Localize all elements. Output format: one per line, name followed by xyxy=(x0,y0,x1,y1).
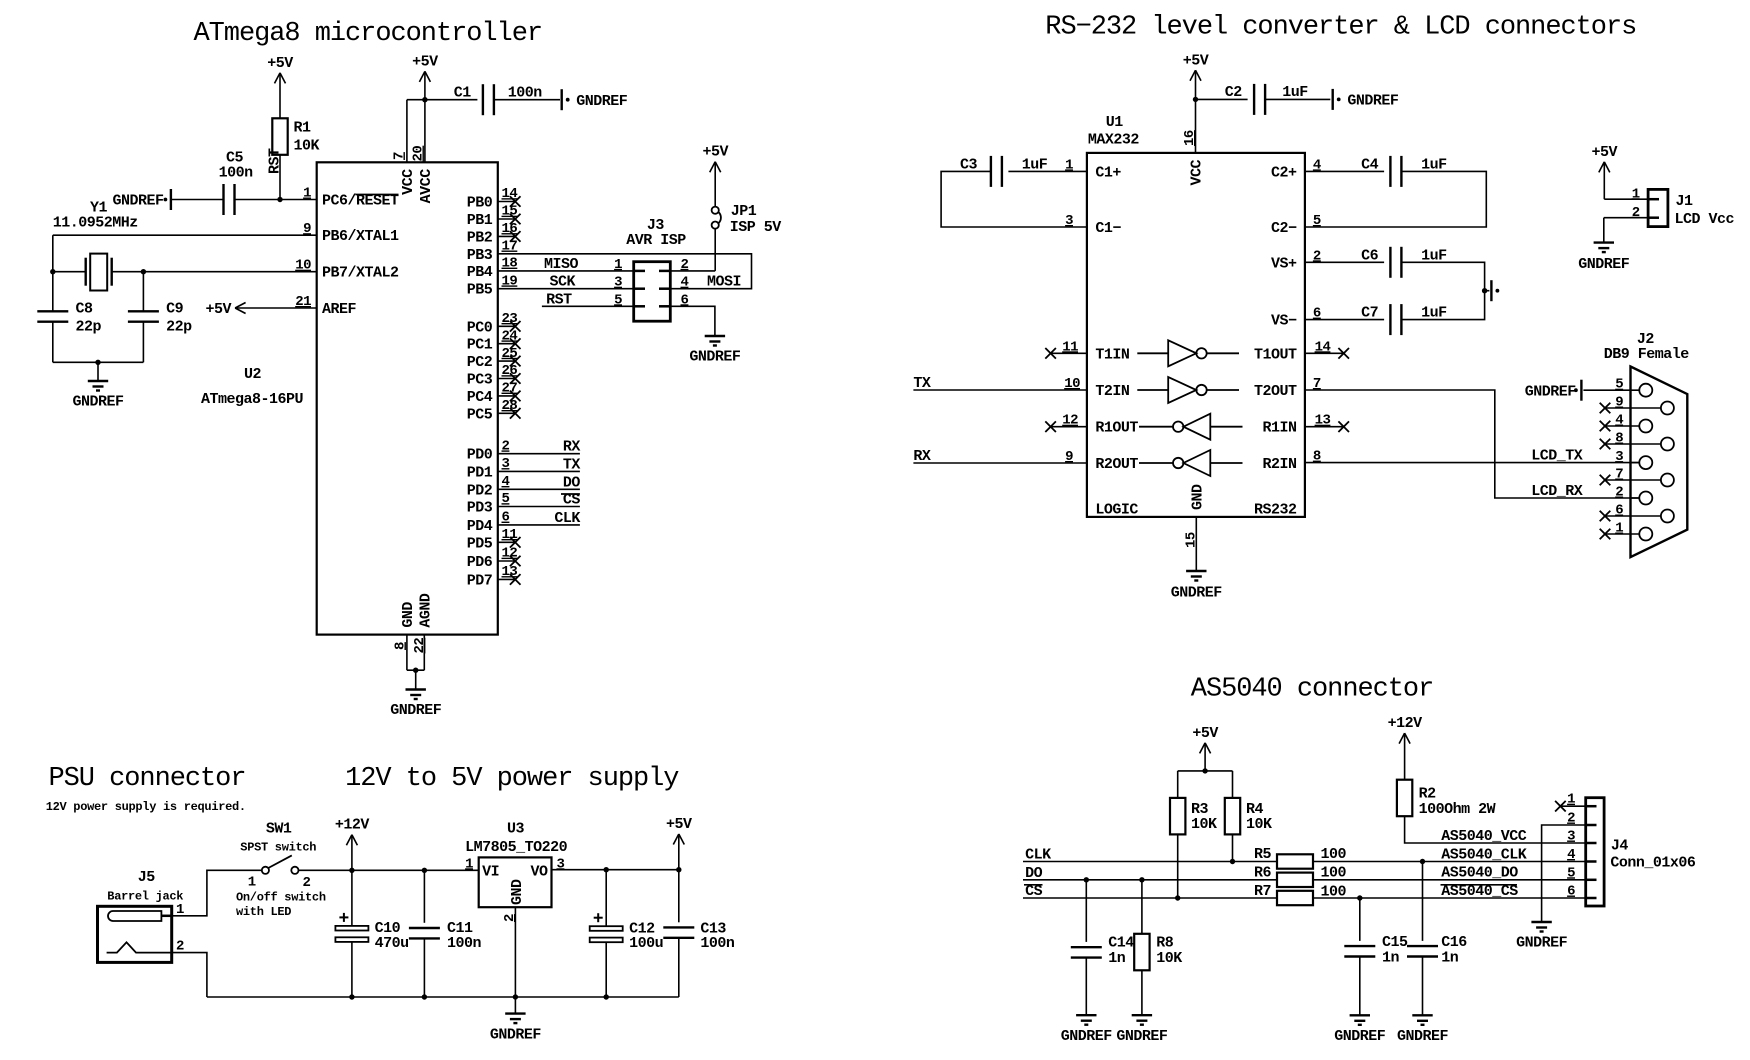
wire R8 bottom lead xyxy=(1141,970,1143,1015)
junction R3/R4 top xyxy=(1202,768,1207,773)
wire bottom rail xyxy=(207,996,679,998)
wire C12 top lead xyxy=(605,870,607,927)
power flag at C5 xyxy=(164,189,171,210)
svg-text:+12V: +12V xyxy=(1388,715,1423,732)
label CS at U2 xyxy=(563,492,581,509)
svg-text:J1: J1 xyxy=(1676,193,1694,210)
svg-text:PD5: PD5 xyxy=(467,535,493,552)
wire pin12 stub xyxy=(1051,426,1087,428)
ground label C14 xyxy=(1061,1028,1113,1045)
wire J3 pin6 gnd xyxy=(670,306,715,336)
svg-text:100Ohm 2W: 100Ohm 2W xyxy=(1419,801,1496,818)
no-connect PD6 xyxy=(510,556,521,567)
connector J2 pin 1 circle xyxy=(1639,528,1652,541)
pin number J4 pin6 xyxy=(1567,884,1575,900)
svg-text:11.0952MHz: 11.0952MHz xyxy=(53,214,138,231)
pin name U2 AREF xyxy=(322,301,357,318)
wire C16 top lead xyxy=(1422,862,1424,941)
svg-text:ISP 5V: ISP 5V xyxy=(730,219,782,236)
label R4 value xyxy=(1246,816,1272,833)
wire AS5040_VCC net xyxy=(1405,816,1586,843)
label LCD_RX xyxy=(1531,483,1583,500)
svg-text:12: 12 xyxy=(502,546,518,562)
wire crystal left lead xyxy=(53,271,86,273)
connector J1 pin tab 1 xyxy=(1648,198,1659,201)
pin number U2 pin11 xyxy=(502,527,518,543)
label C8 refdes xyxy=(76,301,94,318)
capacitor C3 xyxy=(991,156,1002,187)
wire PB1 stub xyxy=(498,218,515,220)
wire J1 pin2 gnd drop xyxy=(1603,218,1605,243)
power flag at C6/C7 xyxy=(1491,280,1499,301)
svg-text:SW1: SW1 xyxy=(266,821,292,838)
connector J2 refdes xyxy=(1637,331,1655,348)
label R5 refdes xyxy=(1254,846,1272,863)
label C3 value xyxy=(1022,157,1048,174)
connector J1 value LCD Vcc xyxy=(1675,211,1735,228)
label R8 refdes xyxy=(1156,935,1174,952)
pin number J3 pin1 xyxy=(614,257,622,273)
label C9 refdes xyxy=(166,301,184,318)
label R5 value 100 xyxy=(1321,846,1347,863)
pin number SW1 pin2 xyxy=(303,875,311,891)
junction +12V node xyxy=(349,868,354,873)
wire gnd link xyxy=(407,669,424,671)
pin number U2 pin24 xyxy=(502,328,518,344)
pin number U1 pin3 xyxy=(1065,213,1073,229)
svg-text:RX: RX xyxy=(913,448,931,465)
svg-text:19: 19 xyxy=(502,273,518,289)
junction R4/CLK xyxy=(1230,859,1235,864)
no-connect J2 pin4 xyxy=(1600,421,1611,432)
pin name U2 PD3 xyxy=(467,500,493,517)
pin name U1 RS232 xyxy=(1254,501,1297,518)
wire main 12V rail xyxy=(352,869,479,871)
label AS5040_CLK xyxy=(1441,846,1527,863)
capacitor C4 xyxy=(1390,156,1401,187)
svg-text:GNDREF: GNDREF xyxy=(112,193,164,210)
pin number U2 pin12 xyxy=(502,546,518,562)
power flag label at J2 pin5 xyxy=(1525,383,1577,400)
svg-text:C6: C6 xyxy=(1361,247,1379,264)
label MISO xyxy=(544,256,579,273)
pin name U1 C2- xyxy=(1271,220,1297,237)
junction C12 bottom xyxy=(604,994,609,999)
wire junction to flag xyxy=(1485,290,1490,292)
wire RST to J3 xyxy=(542,305,634,307)
pin number U1 pin11 xyxy=(1062,339,1078,355)
buffer T1 driver xyxy=(1137,340,1239,366)
wire U2 gnd stub xyxy=(415,670,417,689)
svg-text:470u: 470u xyxy=(375,935,409,952)
label R8 value xyxy=(1156,950,1182,967)
svg-text:R6: R6 xyxy=(1254,864,1272,881)
svg-text:6: 6 xyxy=(1567,884,1575,900)
no-connect PC5 xyxy=(510,408,521,419)
capacitor C11 xyxy=(409,928,440,938)
label CS xyxy=(1025,883,1043,900)
connector J5 value Barrel jack xyxy=(107,889,183,903)
label C16 value xyxy=(1441,950,1459,967)
jumper JP1 xyxy=(712,207,721,229)
label AS5040_DO xyxy=(1441,865,1518,882)
net label RST vertical xyxy=(267,148,284,174)
svg-text:22p: 22p xyxy=(166,318,192,335)
svg-text:2: 2 xyxy=(1632,205,1640,221)
svg-text:13: 13 xyxy=(502,564,518,580)
ground label U1 xyxy=(1171,585,1223,602)
wire C14 top lead xyxy=(1085,880,1087,942)
svg-text:1: 1 xyxy=(303,186,311,202)
power +5V at R1 xyxy=(267,55,293,118)
svg-text:GNDREF: GNDREF xyxy=(1525,383,1577,400)
label RST at J3 xyxy=(546,291,572,308)
resistor R4 xyxy=(1225,798,1240,835)
capacitor C15 xyxy=(1344,946,1375,956)
svg-text:PB0: PB0 xyxy=(467,195,493,212)
svg-text:C2+: C2+ xyxy=(1271,164,1297,181)
wire vcc link xyxy=(407,99,425,101)
svg-text:LM7805_TO220: LM7805_TO220 xyxy=(465,839,568,856)
pin name U2 PD6 xyxy=(467,554,493,571)
svg-text:On/off switch: On/off switch xyxy=(236,890,326,904)
svg-text:VS+: VS+ xyxy=(1271,255,1297,272)
svg-text:PC6/: PC6/ xyxy=(322,193,357,210)
label R6 refdes xyxy=(1254,864,1272,881)
power +5V at U1 VCC xyxy=(1183,52,1209,99)
wire C12 bottom lead xyxy=(605,942,607,997)
wire J2 pin3 link xyxy=(1631,462,1640,464)
wire U3 gnd stub xyxy=(514,997,516,1014)
wire J1 pin1 wire xyxy=(1604,198,1648,200)
wire J2 pin2 link xyxy=(1631,497,1640,499)
svg-text:GNDREF: GNDREF xyxy=(1061,1028,1113,1045)
capacitor C5 xyxy=(224,184,235,215)
label C13 value xyxy=(700,935,735,952)
svg-text:C1: C1 xyxy=(454,84,472,101)
connector J5 sleeve pin xyxy=(107,942,172,952)
wire PB4 MISO xyxy=(498,270,634,272)
pin number U2 pin10 xyxy=(295,258,311,274)
label C6 value xyxy=(1421,247,1447,264)
pin name U2 PB7/XTAL2 xyxy=(322,265,399,282)
label C10 value xyxy=(375,935,409,952)
wire PC2 stub xyxy=(498,360,515,362)
junction R8/DO xyxy=(1139,877,1144,882)
connector J4 body xyxy=(1586,798,1604,906)
capacitor C10 xyxy=(335,913,368,942)
note On/off switch xyxy=(236,890,326,904)
svg-text:PD2: PD2 xyxy=(467,482,493,499)
ground label crystal xyxy=(72,394,124,411)
svg-text:ATmega8-16PU: ATmega8-16PU xyxy=(201,391,304,408)
svg-text:2: 2 xyxy=(303,875,311,891)
wire C4 loop xyxy=(1305,171,1486,227)
svg-text:PD0: PD0 xyxy=(467,447,493,464)
pin name U1 C1- xyxy=(1095,220,1121,237)
wire AS5040_CS net xyxy=(1313,897,1586,899)
power flag label at C5 xyxy=(112,193,164,210)
pin name U1 VS+ xyxy=(1271,255,1297,272)
pin number U2 pin8 xyxy=(393,642,409,650)
svg-text:4: 4 xyxy=(502,474,510,490)
svg-text:SPST switch: SPST switch xyxy=(240,841,316,855)
svg-text:100n: 100n xyxy=(508,84,543,101)
connector J3 pin tab left xyxy=(634,305,645,308)
connector J1 pin tab 2 xyxy=(1648,216,1659,219)
connector J1 refdes xyxy=(1676,193,1694,210)
pin name U1 T2IN xyxy=(1095,383,1130,400)
label C7 refdes xyxy=(1361,305,1378,322)
svg-text:GNDREF: GNDREF xyxy=(1334,1028,1386,1045)
wire AS5040_CLK net xyxy=(1313,861,1586,863)
no-connect PD5 xyxy=(510,537,521,548)
svg-text:1uF: 1uF xyxy=(1022,157,1048,174)
junction +5V node xyxy=(676,867,681,872)
wire pin4 to C4 xyxy=(1305,170,1384,172)
overline CS net xyxy=(1024,884,1043,886)
wire PC4 stub xyxy=(498,395,515,397)
svg-text:AS5040_DO: AS5040_DO xyxy=(1441,865,1518,882)
pin name U2 PB1 xyxy=(467,212,493,229)
ground J4 xyxy=(1531,922,1551,932)
junction C11 bottom xyxy=(422,994,427,999)
label R2 refdes xyxy=(1419,786,1437,803)
wire pin22 drop xyxy=(423,635,425,671)
power +5V at JP1 xyxy=(702,144,728,207)
svg-text:RX: RX xyxy=(563,439,581,456)
power flag at J2 pin5 xyxy=(1574,380,1581,401)
svg-text:22: 22 xyxy=(412,638,428,654)
svg-text:LCD_TX: LCD_TX xyxy=(1531,448,1583,465)
pin number U3 pin3 xyxy=(557,856,565,872)
svg-text:VS−: VS− xyxy=(1271,313,1297,330)
pin number J2 pin6 xyxy=(1615,503,1623,519)
pin number J1 pin2 xyxy=(1632,205,1640,221)
wire R4 top lead xyxy=(1232,771,1234,798)
svg-text:+5V: +5V xyxy=(666,816,692,833)
pin number U2 pin23 xyxy=(502,311,518,327)
ic U1 value MAX232 xyxy=(1088,132,1140,149)
svg-text:U3: U3 xyxy=(507,821,525,838)
wire crystal left drop xyxy=(52,235,54,311)
ground U2 xyxy=(406,690,426,700)
pin number U2 pin25 xyxy=(502,346,518,362)
ground label J4 xyxy=(1516,935,1568,952)
junction crystal gnd xyxy=(95,360,100,365)
wire J4 pin1 stub xyxy=(1560,805,1585,807)
svg-text:PC3: PC3 xyxy=(467,372,493,389)
pin name U2 PC3 xyxy=(467,372,493,389)
connector J2 pin 7 circle xyxy=(1661,474,1674,487)
ground label J1 xyxy=(1578,256,1630,273)
connector J4 pin tab 2 xyxy=(1586,824,1597,827)
pin name U1 T1OUT xyxy=(1254,346,1297,363)
resistor R8 xyxy=(1134,934,1149,971)
pin name U3 VO xyxy=(530,863,548,880)
capacitor C14 xyxy=(1071,947,1102,957)
svg-text:2: 2 xyxy=(1567,811,1575,827)
label R3 value xyxy=(1191,816,1217,833)
pin name U1 T2OUT xyxy=(1254,383,1297,400)
svg-text:21: 21 xyxy=(295,294,311,310)
svg-text:PC5: PC5 xyxy=(467,406,493,423)
no-connect J2 pin6 xyxy=(1600,511,1611,522)
pin name U1 C2+ xyxy=(1271,164,1297,181)
wire C8 down xyxy=(52,322,54,363)
svg-text:MAX232: MAX232 xyxy=(1088,132,1140,149)
svg-text:with LED: with LED xyxy=(236,905,291,919)
connector J3 pin tab right xyxy=(659,287,670,290)
no-connect PC0 xyxy=(510,321,521,332)
no-connect J2 pin8 xyxy=(1600,439,1611,450)
svg-text:RS232: RS232 xyxy=(1254,501,1297,518)
pin number J4 pin5 xyxy=(1567,865,1575,881)
svg-text:18: 18 xyxy=(502,256,518,272)
label C11 value xyxy=(447,935,482,952)
pin number U1 pin4 xyxy=(1313,157,1321,173)
wire J2 pin9 stub xyxy=(1605,407,1661,409)
pin name U1 GND xyxy=(1189,484,1206,510)
svg-text:6: 6 xyxy=(502,510,510,526)
svg-text:PB5: PB5 xyxy=(467,282,493,299)
pin name U2 RESET part xyxy=(356,193,399,210)
title PSU connector xyxy=(49,764,246,794)
no-connect PB0 xyxy=(510,196,521,207)
pin number U1 pin13 xyxy=(1315,413,1331,429)
svg-text:20: 20 xyxy=(411,146,427,162)
regulator U3 value LM7805_TO220 xyxy=(465,839,568,856)
buffer R1 receiver xyxy=(1139,414,1243,440)
pin number J2 pin2 xyxy=(1615,485,1623,501)
ground label J3 xyxy=(689,349,741,366)
ground J3 xyxy=(705,336,725,346)
pin name U2 PC1 xyxy=(467,337,493,354)
no-connect J2 pin9 xyxy=(1600,403,1611,414)
wire U1 gnd stub xyxy=(1195,517,1197,571)
no-connect J2 pin1 xyxy=(1600,529,1611,540)
svg-text:AS5040 connector: AS5040 connector xyxy=(1191,675,1433,705)
svg-text:J5: J5 xyxy=(138,869,156,886)
connector J3 pin tab right xyxy=(659,270,670,273)
svg-text:DB9 Female: DB9 Female xyxy=(1604,346,1690,363)
wire PD1 TX xyxy=(498,470,580,472)
jumper JP1 refdes xyxy=(731,203,757,220)
power +12V at PSU xyxy=(335,817,370,871)
pin number J5 pin1 xyxy=(176,902,184,918)
power +5V at J1 xyxy=(1592,144,1618,199)
svg-text:PC2: PC2 xyxy=(467,354,493,371)
wire PB3 MOSI net xyxy=(498,254,752,289)
svg-text:PSU connector: PSU connector xyxy=(49,764,246,794)
pin number U2 pin1 xyxy=(303,186,311,202)
pin name U2 PB4 xyxy=(467,264,493,281)
svg-text:C16: C16 xyxy=(1441,934,1467,951)
pin number J2 pin3 xyxy=(1615,449,1623,465)
pin name U1 R1IN xyxy=(1262,420,1297,437)
capacitor C7 xyxy=(1390,304,1401,335)
pin number U2 pin22 xyxy=(412,638,428,654)
wire C6 to junction xyxy=(1401,262,1484,290)
wire R3 top lead xyxy=(1177,771,1179,798)
label TX xyxy=(913,375,931,392)
svg-text:C9: C9 xyxy=(166,301,184,318)
label C14 value xyxy=(1108,950,1126,967)
svg-text:1uF: 1uF xyxy=(1282,84,1308,101)
svg-text:RS−232 level converter & LCD c: RS−232 level converter & LCD connectors xyxy=(1045,13,1636,43)
svg-text:25: 25 xyxy=(502,346,518,362)
svg-text:AS5040_CLK: AS5040_CLK xyxy=(1441,846,1527,863)
svg-text:12V to 5V power supply: 12V to 5V power supply xyxy=(345,764,679,794)
wire PD4 CLK xyxy=(498,524,580,526)
wire C9 down xyxy=(142,322,144,363)
pin number J4 pin1 xyxy=(1567,792,1575,808)
wire crystal gnd rail xyxy=(53,361,144,363)
svg-text:+5V: +5V xyxy=(412,53,438,70)
pin name U1 T1IN xyxy=(1095,346,1130,363)
junction U3 gnd xyxy=(513,994,518,999)
svg-text:MOSI: MOSI xyxy=(707,274,741,291)
svg-text:3: 3 xyxy=(502,456,510,472)
wire C10 bottom lead xyxy=(351,942,353,997)
svg-text:1: 1 xyxy=(614,257,622,273)
svg-text:10K: 10K xyxy=(1156,950,1182,967)
pin name U1 VCC xyxy=(1189,160,1206,186)
svg-text:T2IN: T2IN xyxy=(1095,383,1130,400)
connector J3 value AVR ISP xyxy=(626,232,686,249)
svg-text:C2−: C2− xyxy=(1271,220,1297,237)
wire pin7 riser xyxy=(406,100,408,163)
pin number J5 pin2 xyxy=(176,939,184,955)
connector J3 pin tab left xyxy=(634,270,645,273)
label R7 refdes xyxy=(1254,883,1271,900)
svg-text:5: 5 xyxy=(1567,865,1575,881)
svg-text:3: 3 xyxy=(1567,829,1575,845)
wire LCD_RX net xyxy=(1305,390,1639,498)
wire vcc to C1 xyxy=(425,99,478,101)
label TX at U2 xyxy=(563,456,581,473)
svg-text:+12V: +12V xyxy=(335,817,370,834)
svg-text:GND: GND xyxy=(400,602,417,628)
capacitor C12 xyxy=(590,913,623,942)
resistor R7 xyxy=(1277,891,1313,905)
no-connect PB1 xyxy=(510,214,521,225)
wire pin11 stub xyxy=(1051,352,1087,354)
svg-text:+5V: +5V xyxy=(702,144,728,161)
no-connect PB2 xyxy=(510,231,521,242)
label C14 refdes xyxy=(1108,935,1134,952)
resistor R5 xyxy=(1277,854,1313,868)
pin number SW1 pin1 xyxy=(248,875,256,891)
ic U2 value ATmega8-16PU xyxy=(201,391,304,408)
wire J2 pin4 stub xyxy=(1605,425,1639,427)
pin number U1 pin16 xyxy=(1182,130,1198,146)
pin number U2 pin18 xyxy=(502,256,518,272)
svg-text:R1: R1 xyxy=(294,120,312,137)
wire flag to C5 xyxy=(172,199,224,201)
resistor R2 xyxy=(1397,780,1412,817)
pin number J3 pin5 xyxy=(614,292,622,308)
capacitor C8 xyxy=(37,311,68,321)
wire PD7 stub xyxy=(498,578,515,580)
svg-text:100u: 100u xyxy=(629,935,663,952)
svg-text:3: 3 xyxy=(614,275,622,291)
pin number J4 pin2 xyxy=(1567,811,1575,827)
overline RESET xyxy=(356,194,399,196)
wire C15 bottom lead xyxy=(1359,957,1361,1016)
svg-text:PB2: PB2 xyxy=(467,229,493,246)
junction U2 gnd xyxy=(413,668,418,673)
